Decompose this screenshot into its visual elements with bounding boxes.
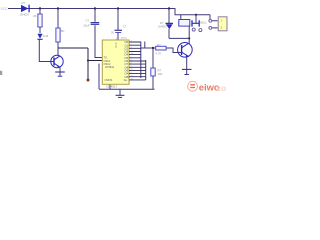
svg-text:C?: C? (86, 19, 90, 23)
svg-text:R?: R? (157, 43, 161, 47)
svg-text:CMOS: CMOS (105, 78, 113, 82)
svg-text:1N4007: 1N4007 (20, 12, 30, 16)
svg-text:10K: 10K (158, 72, 163, 76)
svg-text:4.7K: 4.7K (156, 52, 162, 56)
svg-text:Co: Co (124, 78, 128, 82)
svg-text:2K: 2K (33, 14, 37, 18)
svg-text:VCC: VCC (1, 7, 9, 11)
svg-text:zo: zo (217, 83, 227, 93)
svg-text:30: 30 (111, 31, 114, 35)
svg-text:BELL: BELL (200, 20, 207, 24)
svg-text:8K: 8K (61, 29, 65, 33)
svg-text:D: D (115, 44, 117, 48)
svg-text:C?: C? (123, 25, 127, 29)
svg-text:D?: D? (22, 1, 26, 5)
svg-text:HT2811: HT2811 (105, 65, 115, 69)
svg-text:CD4017: CD4017 (106, 85, 117, 89)
svg-text:1N4007: 1N4007 (158, 24, 168, 28)
svg-text:10uF: 10uF (83, 23, 90, 27)
svg-text:4148: 4148 (43, 35, 49, 38)
